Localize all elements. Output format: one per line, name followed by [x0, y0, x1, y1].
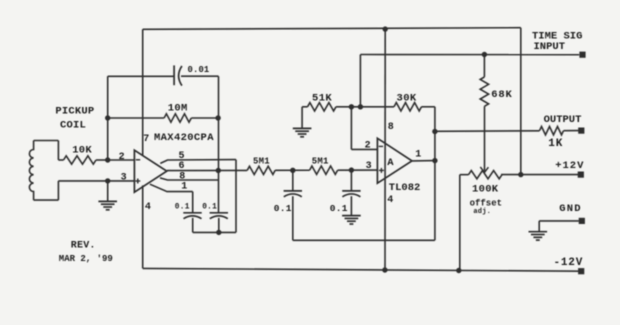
resistor 5M1 R4: [310, 166, 338, 174]
svg-text:2: 2: [119, 152, 125, 163]
U2 pin 3 label: [366, 161, 372, 172]
junction +12V: [518, 172, 523, 177]
terminal +12V: [578, 172, 584, 178]
U1 output junction: [216, 168, 221, 173]
svg-text:adj.: adj.: [473, 208, 491, 216]
summing node junction 2: [358, 104, 363, 109]
wire pot left arm: [460, 175, 469, 271]
label 0.1 (C2): [175, 203, 190, 211]
label 10K: [72, 145, 92, 157]
svg-text:0.1: 0.1: [274, 203, 292, 214]
wire output to 1K: [435, 130, 540, 133]
note REV.: [71, 240, 96, 251]
U1 pin 7 wire (V+ from top rail): [142, 29, 144, 155]
label 5M1 (R3): [253, 156, 270, 166]
label MAX420CPA: [154, 132, 214, 144]
U2 pin 8 label: [388, 122, 394, 133]
label adj.: [473, 208, 491, 216]
wire node A to U1 pin2: [108, 159, 135, 161]
terminal GND: [579, 218, 585, 224]
U2 power line pins 8/4: [384, 29, 386, 270]
label +12V: [555, 160, 584, 172]
label 100K: [472, 184, 499, 196]
summing node junction 1: [349, 104, 354, 109]
wire 1K to terminal: [564, 130, 579, 132]
terminal TIME SIG INPUT: [579, 52, 585, 58]
svg-text:5M1: 5M1: [253, 156, 270, 166]
wire output node vertical: [434, 107, 436, 241]
U1 pin 4 wire (V- to bottom rail): [142, 185, 144, 268]
wire coil top to R 10K: [58, 159, 63, 161]
svg-text:10M: 10M: [168, 103, 188, 115]
wire caps common bottom: [193, 231, 236, 233]
svg-text:OUTPUT: OUTPUT: [544, 114, 582, 126]
wire feedback left vertical: [107, 76, 109, 160]
wire 10M right: [191, 117, 218, 119]
wire R4 to U2 pin3: [338, 169, 378, 171]
U1 pin 5 wire: [160, 160, 236, 233]
svg-text:A: A: [387, 157, 394, 169]
label 5M1 (R4): [312, 156, 329, 166]
wire summing to U2 pin2: [351, 107, 377, 150]
ground at 51K: [293, 107, 312, 137]
wire feedback bottom: [293, 239, 435, 241]
U1 pin 1 wire: [150, 184, 193, 213]
op-amp U2 TL082 A triangle: [377, 138, 412, 183]
wire coil bottom to node B: [58, 180, 107, 182]
svg-text:INPUT: INPUT: [534, 41, 566, 53]
potentiometer 100K R9 offset adj: [469, 167, 503, 179]
wire 68K to pot wiper: [484, 106, 486, 171]
svg-text:GND: GND: [559, 203, 582, 215]
wire feedback right vertical: [218, 76, 220, 213]
wire TIME SIG INPUT: [360, 54, 579, 56]
svg-text:68K: 68K: [491, 89, 512, 101]
U1 pin 8 wire: [160, 178, 218, 180]
wire summing up to input: [359, 55, 361, 107]
label TL082: [389, 182, 421, 194]
svg-text:1: 1: [181, 181, 187, 192]
label 1K: [548, 138, 563, 150]
svg-text:TL082: TL082: [389, 182, 421, 194]
svg-text:51K: 51K: [312, 93, 332, 105]
capacitor 0.1 C3: [210, 213, 228, 219]
label 0.1 (C4): [274, 203, 292, 214]
svg-text:100K: 100K: [472, 184, 499, 196]
wire pot to +12V terminal: [501, 174, 579, 176]
svg-text:PICKUP: PICKUP: [55, 106, 94, 118]
U1 pin 7 label: [143, 134, 149, 145]
junction bottom rail U2 V-: [382, 267, 387, 272]
svg-text:7: 7: [143, 134, 149, 145]
svg-text:8: 8: [388, 122, 394, 133]
junction 10M right: [215, 115, 220, 120]
wire 0.01 left: [108, 75, 174, 77]
junction 10M left: [105, 115, 110, 120]
op-amp U1 MAX420 triangle: [134, 150, 166, 192]
wire input to 68K: [483, 55, 485, 78]
junction input-68K: [482, 52, 487, 57]
label PICKUP COIL: [55, 106, 94, 132]
resistor 10M R2: [164, 114, 191, 122]
label A (U2 section): [387, 157, 394, 169]
junction U2 output: [432, 158, 437, 163]
junction bottom rail pot: [456, 268, 461, 273]
resistor 68K R8: [480, 77, 488, 106]
ground symbol at GND terminal: [529, 221, 548, 240]
wire 30K to output node: [422, 106, 435, 108]
svg-text:10K: 10K: [72, 145, 92, 157]
U1 pin 2 label: [119, 152, 125, 163]
label offset: [470, 198, 502, 208]
wire node B to U1 pin3: [108, 180, 135, 182]
capacitor 0.01 C1: [174, 65, 182, 85]
resistor 10K: [64, 156, 97, 164]
junction caps bottom: [216, 230, 221, 235]
resistor 30K R6: [394, 103, 422, 111]
U2 pin 1 label: [415, 150, 421, 161]
capacitor 0.1 C5: [342, 170, 360, 215]
U1 pin 5 label: [179, 151, 185, 162]
svg-text:0.1: 0.1: [175, 203, 190, 211]
label OUTPUT: [544, 114, 582, 126]
svg-text:2: 2: [365, 141, 371, 152]
capacitor 0.1 C4: [284, 170, 302, 240]
resistor 1K R7: [540, 127, 564, 135]
U1 pin 6 label: [179, 161, 185, 172]
label TIME SIG: [532, 31, 582, 43]
node A junction (pin2 net): [105, 157, 110, 162]
svg-text:COIL: COIL: [60, 120, 86, 132]
wire 51K to summing node: [336, 106, 394, 108]
wire C3 bottom: [218, 218, 220, 233]
wire R3 to node C: [275, 169, 309, 171]
label GND: [559, 203, 582, 215]
svg-text:30K: 30K: [397, 93, 417, 105]
U1 pin 8 label: [179, 171, 185, 182]
wire 10K to node A: [96, 159, 108, 161]
U1 pin 4 label: [145, 202, 151, 213]
resistor 5M1 R3: [247, 166, 275, 174]
svg-text:offset: offset: [470, 198, 502, 208]
svg-text:+12V: +12V: [555, 160, 584, 172]
U1 pin 1 label: [181, 181, 187, 192]
svg-text:1K: 1K: [548, 138, 563, 150]
node C junction: [290, 168, 295, 173]
svg-text:0.1: 0.1: [202, 203, 217, 211]
svg-text:1: 1: [415, 150, 421, 161]
U2 pin 2 label: [365, 141, 371, 152]
wire right vertical to +12V: [520, 28, 522, 175]
svg-text:0.01: 0.01: [188, 65, 210, 75]
label INPUT: [534, 41, 566, 53]
label 68K: [491, 89, 512, 101]
svg-text:3: 3: [366, 161, 372, 172]
capacitor 0.1 C2: [183, 213, 201, 219]
note MAR 2, '99: [59, 254, 113, 264]
wire 0.01 right: [181, 75, 219, 77]
label 0.1 (C5): [330, 203, 348, 214]
pickup coil L1: [29, 141, 58, 201]
label 0.1 (C3): [202, 203, 217, 211]
U2 pin 4 label: [387, 195, 393, 206]
wire GND terminal: [539, 220, 579, 222]
U1 pin 3 label: [121, 172, 127, 183]
ground at C5: [342, 216, 361, 224]
svg-text:MAX420CPA: MAX420CPA: [154, 132, 214, 144]
node B junction (pin3 net): [105, 178, 110, 183]
label -12V: [554, 257, 584, 269]
label 30K: [397, 93, 417, 105]
label 0.01: [188, 65, 210, 75]
junction output-to-1K: [432, 129, 437, 134]
wire 10M left: [108, 117, 164, 119]
wire bottom rail (-12V): [143, 268, 582, 271]
U1 pin 6 output wire: [167, 169, 247, 171]
svg-text:MAR 2, '99: MAR 2, '99: [59, 254, 113, 264]
label 51K: [312, 93, 332, 105]
wire ground to 51K: [302, 106, 307, 108]
U2 pin 1 output wire: [412, 160, 435, 162]
wire C2 bottom: [192, 218, 194, 233]
svg-text:3: 3: [121, 172, 127, 183]
svg-text:5M1: 5M1: [312, 156, 329, 166]
wire top rail (+12V): [143, 28, 521, 30]
junction top rail to U2 V+: [383, 26, 388, 31]
terminal OUTPUT: [578, 128, 584, 134]
svg-text:4: 4: [387, 195, 393, 206]
svg-text:-12V: -12V: [554, 257, 584, 269]
resistor 51K R5: [308, 103, 337, 111]
svg-text:4: 4: [145, 202, 151, 213]
ground at node B: [98, 181, 117, 210]
svg-text:0.1: 0.1: [330, 203, 348, 214]
label 10M: [168, 103, 188, 115]
svg-text:REV.: REV.: [71, 240, 96, 251]
terminal -12V: [578, 268, 584, 274]
node D junction: [349, 167, 354, 172]
